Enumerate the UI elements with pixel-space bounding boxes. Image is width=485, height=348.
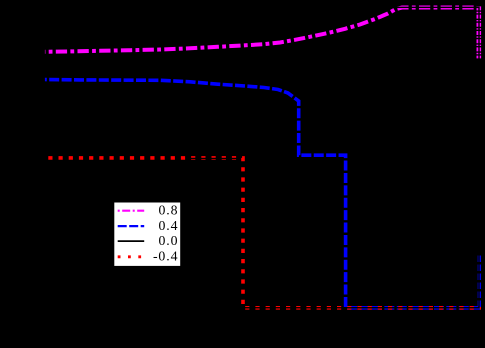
svg-text:0.8: 0.8 <box>158 203 178 218</box>
svg-text:0.0: 0.0 <box>158 233 178 248</box>
svg-text:0.4: 0.4 <box>158 218 178 233</box>
svg-text:-0.4: -0.4 <box>153 249 178 264</box>
